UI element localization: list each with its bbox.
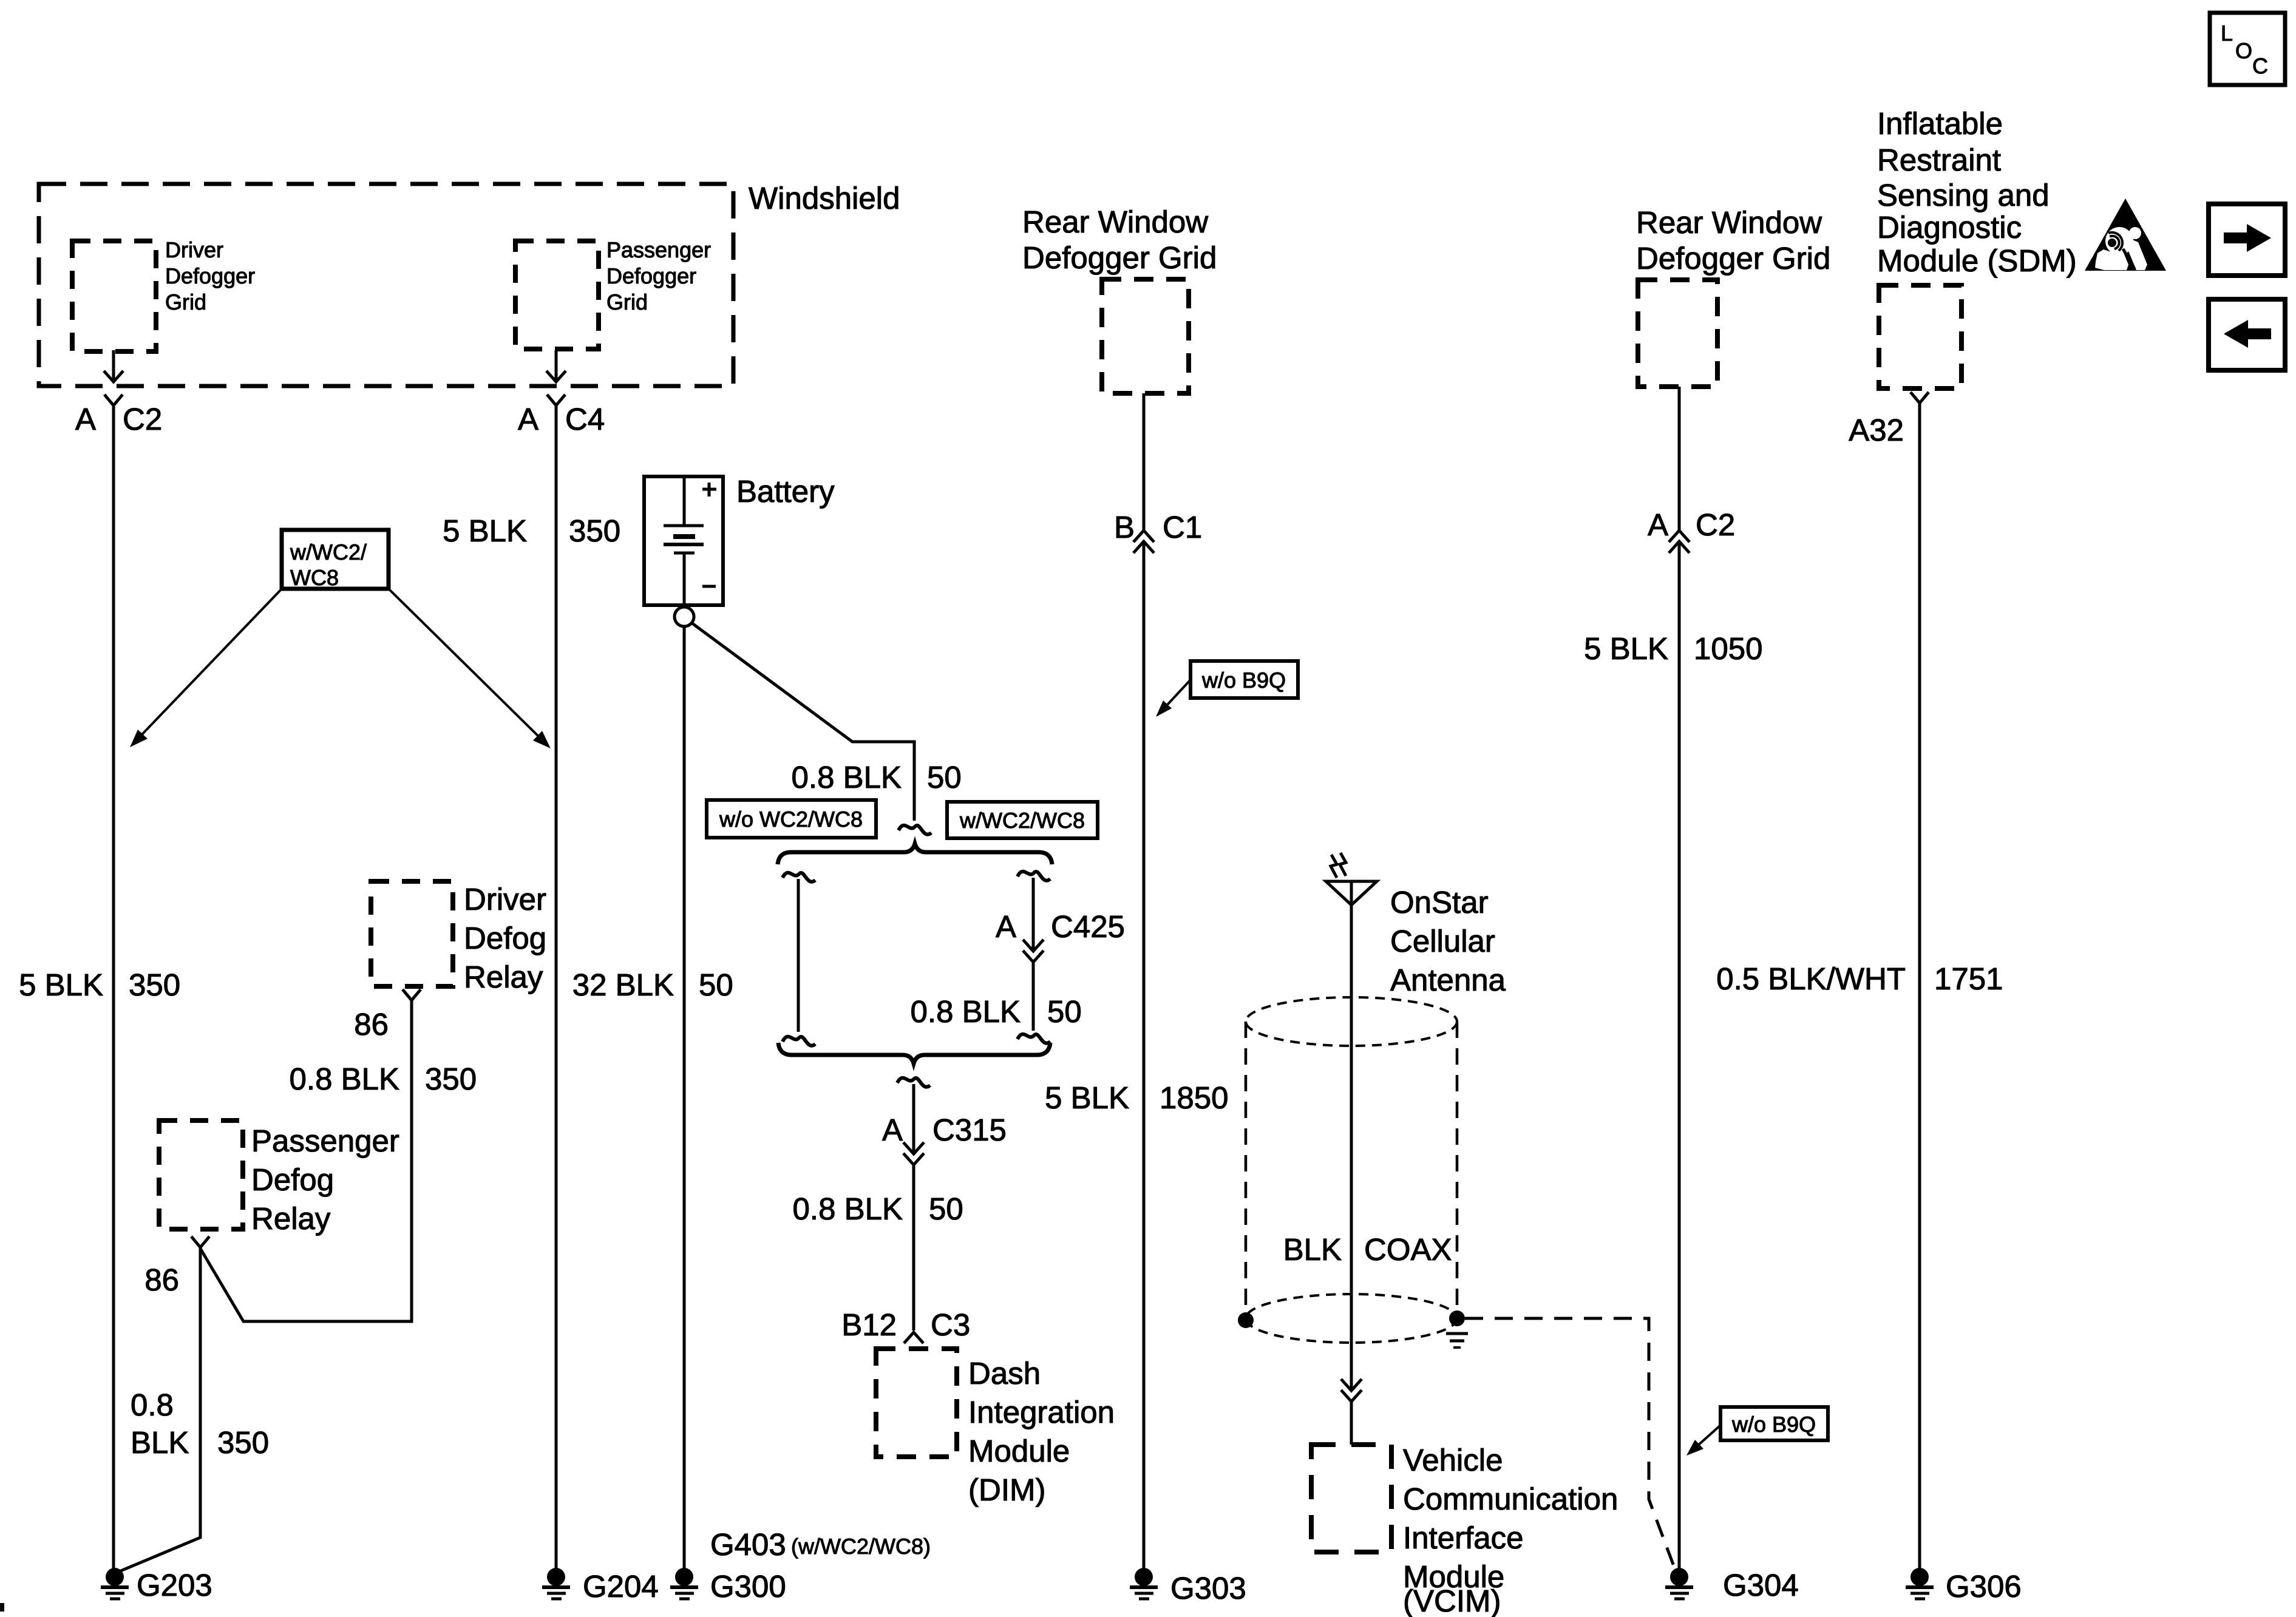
svg-text:w/WC2/: w/WC2/ — [290, 540, 367, 564]
wire: driver grid to windshield edge with arrowhead — [112, 350, 115, 381]
vehicle communication interface module box — [1311, 1445, 1391, 1552]
forward arrow box — [2209, 204, 2285, 276]
wire: antenna lead to VCIM — [1350, 1402, 1353, 1445]
svg-text:Antenna: Antenna — [1390, 963, 1506, 997]
connector fork pin 86 passenger relay — [191, 1236, 209, 1247]
svg-text:Passenger: Passenger — [251, 1124, 399, 1158]
svg-text:C2: C2 — [1696, 507, 1735, 542]
arrow from option tag to passenger wire — [387, 587, 540, 738]
svg-text:(DIM): (DIM) — [968, 1473, 1045, 1507]
dashed ground link from coax shield to G304 — [1465, 1318, 1675, 1569]
svg-text:COAX: COAX — [1364, 1232, 1452, 1267]
svg-text:A: A — [518, 402, 538, 436]
ground G303 — [1135, 1568, 1153, 1586]
ground G204 — [547, 1568, 565, 1586]
svg-text:Vehicle: Vehicle — [1403, 1443, 1503, 1477]
svg-text:BLK: BLK — [131, 1425, 189, 1460]
svg-text:WC8: WC8 — [290, 565, 339, 590]
svg-text:C315: C315 — [932, 1113, 1007, 1147]
coax shield cylinder walls — [1245, 1022, 1248, 1318]
svg-text:Diagnostic: Diagnostic — [1877, 210, 2022, 245]
ground G306 — [1911, 1568, 1929, 1586]
svg-text:Grid: Grid — [606, 290, 648, 314]
left option branch squiggle top — [783, 873, 815, 882]
arrow from option tag to left wire — [140, 587, 284, 736]
svg-text:Defog: Defog — [251, 1162, 334, 1197]
connector fork A C2 — [104, 395, 123, 405]
option tag box w/o B9Q (upper) — [1190, 661, 1298, 698]
arrow from w/o B9Q to wire — [1166, 680, 1190, 706]
svg-text:G203: G203 — [137, 1568, 212, 1602]
svg-text:5 BLK: 5 BLK — [443, 514, 527, 548]
svg-text:Defogger Grid: Defogger Grid — [1022, 240, 1217, 275]
coax shield cylinder top — [1246, 997, 1457, 1046]
wire: SDM to G306 — [1918, 403, 1921, 1572]
LOC reference box — [2210, 13, 2285, 85]
splice squiggle below lower brace — [897, 1078, 930, 1087]
battery terminal junction circle — [674, 607, 694, 626]
svg-text:w/o B9Q: w/o B9Q — [1731, 1412, 1816, 1437]
shield node dot left — [1238, 1312, 1254, 1328]
battery minus sign — [702, 585, 716, 588]
svg-text:Battery: Battery — [736, 474, 835, 509]
windshield dashed enclosure — [39, 184, 733, 386]
svg-text:A: A — [1648, 507, 1668, 542]
svg-text:Sensing and: Sensing and — [1877, 178, 2050, 212]
svg-text:OnStar: OnStar — [1390, 885, 1489, 920]
passenger defogger grid box — [515, 241, 599, 349]
wire: second ground wire to G204 — [555, 405, 558, 1572]
wire: driver relay ground path — [200, 1000, 412, 1321]
svg-text:Rear Window: Rear Window — [1022, 205, 1208, 239]
svg-text:Defogger: Defogger — [165, 263, 255, 288]
svg-text:A: A — [882, 1113, 903, 1147]
wire: battery ground wire to G300 — [683, 626, 686, 1572]
svg-text:G303: G303 — [1170, 1571, 1246, 1605]
connector fork A C4 — [547, 395, 565, 405]
svg-text:0.8 BLK: 0.8 BLK — [911, 994, 1021, 1029]
svg-text:Dash: Dash — [968, 1356, 1041, 1391]
svg-text:G204: G204 — [583, 1569, 659, 1604]
svg-text:w/o B9Q: w/o B9Q — [1201, 668, 1286, 693]
wire: left option branch — [797, 879, 800, 1032]
svg-text:0.8: 0.8 — [131, 1388, 174, 1422]
wire: right defogger grid to A C2 — [1678, 387, 1681, 531]
wire: right option branch lower — [1032, 962, 1035, 1031]
SDM box — [1879, 285, 1961, 388]
splice squiggle above brace — [898, 825, 931, 835]
svg-text:350: 350 — [217, 1425, 269, 1460]
svg-text:C1: C1 — [1163, 510, 1202, 544]
svg-text:w/WC2/WC8: w/WC2/WC8 — [959, 808, 1085, 833]
svg-text:Grid: Grid — [165, 290, 206, 314]
wire: right option branch upper — [1032, 878, 1035, 951]
wire: passenger relay to G203 — [118, 1247, 200, 1572]
SRS warning triangle icon — [2085, 198, 2166, 271]
svg-text:Defogger: Defogger — [606, 263, 696, 288]
lower option brace — [778, 1043, 1050, 1063]
inline connector on antenna lead (double chevron down) — [1341, 1379, 1362, 1391]
back arrow box — [2209, 299, 2285, 370]
ground G203 — [106, 1568, 124, 1586]
ground G304 — [1670, 1568, 1688, 1586]
svg-text:5 BLK: 5 BLK — [1045, 1080, 1129, 1115]
svg-text:Communication: Communication — [1403, 1482, 1618, 1516]
right option branch squiggle bottom — [1017, 1034, 1050, 1043]
wire: battery junction to option splice — [691, 623, 914, 821]
svg-text:Module: Module — [968, 1434, 1070, 1468]
driver defogger grid box — [72, 241, 156, 351]
svg-text:A32: A32 — [1849, 413, 1904, 447]
svg-text:G300: G300 — [710, 1569, 786, 1604]
wire: C315 to DIM — [912, 1165, 915, 1331]
dash integration module box — [876, 1349, 957, 1457]
svg-text:350: 350 — [569, 514, 620, 548]
svg-text:O: O — [2235, 38, 2252, 63]
svg-text:Restraint: Restraint — [1877, 143, 2001, 177]
svg-text:0.8 BLK: 0.8 BLK — [793, 1192, 903, 1226]
svg-text:C2: C2 — [123, 402, 162, 436]
option tag box w/o B9Q (lower) — [1720, 1407, 1828, 1440]
svg-text:C3: C3 — [931, 1307, 970, 1342]
svg-text:(VCIM): (VCIM) — [1403, 1584, 1501, 1617]
wire: defogger grid to B C1 — [1143, 393, 1146, 531]
svg-text:Driver: Driver — [464, 882, 546, 917]
svg-text:Interface: Interface — [1403, 1520, 1523, 1555]
svg-text:32 BLK: 32 BLK — [572, 968, 674, 1002]
svg-text:5 BLK: 5 BLK — [1584, 631, 1668, 666]
inline connector A C315 (double chevron down) — [903, 1142, 924, 1154]
svg-text:Defog: Defog — [464, 921, 546, 955]
svg-text:B: B — [1114, 510, 1135, 544]
svg-text:1751: 1751 — [1934, 961, 2003, 996]
shield node dot right with ground marks — [1449, 1310, 1465, 1326]
svg-text:C4: C4 — [565, 402, 605, 436]
svg-text:w/o WC2/WC8: w/o WC2/WC8 — [719, 807, 863, 832]
svg-text:Rear Window: Rear Window — [1636, 205, 1822, 240]
svg-text:L: L — [2221, 21, 2233, 46]
svg-text:350: 350 — [425, 1062, 477, 1096]
right option branch squiggle top — [1017, 872, 1050, 881]
upper option brace — [778, 844, 1052, 864]
battery plus sign — [702, 483, 716, 497]
svg-text:C: C — [2252, 53, 2268, 78]
svg-text:86: 86 — [354, 1007, 389, 1042]
svg-text:0.5 BLK/WHT: 0.5 BLK/WHT — [1716, 961, 1906, 996]
passenger defog relay box — [159, 1120, 243, 1229]
connector fork A32 — [1911, 392, 1929, 403]
inline connector A C2 (double chevron up) — [1669, 531, 1690, 542]
svg-text:Inflatable: Inflatable — [1877, 106, 2003, 141]
svg-text:(w/WC2/WC8): (w/WC2/WC8) — [791, 1534, 931, 1559]
svg-text:1050: 1050 — [1694, 631, 1762, 666]
option tag box w/WC2/WC8 — [282, 530, 389, 589]
svg-text:Cellular: Cellular — [1390, 924, 1495, 958]
svg-text:Defogger Grid: Defogger Grid — [1636, 241, 1830, 276]
svg-text:A: A — [75, 402, 96, 436]
page edge mark — [0, 1603, 4, 1612]
left option branch squiggle bottom — [783, 1037, 815, 1046]
wire: B C1 to G303 — [1143, 541, 1146, 1572]
svg-text:Relay: Relay — [464, 960, 543, 994]
svg-text:G304: G304 — [1723, 1568, 1799, 1602]
inline connector A C425 (double chevron down) — [1023, 940, 1044, 951]
antenna symbol — [1326, 881, 1377, 905]
rear window defogger grid (right) box — [1638, 280, 1717, 387]
svg-text:Relay: Relay — [251, 1201, 331, 1236]
svg-text:5 BLK: 5 BLK — [19, 968, 103, 1002]
svg-text:Windshield: Windshield — [749, 181, 900, 215]
svg-text:C425: C425 — [1051, 909, 1125, 944]
svg-text:Integration: Integration — [968, 1395, 1115, 1429]
svg-text:Module (SDM): Module (SDM) — [1877, 243, 2077, 278]
svg-text:G306: G306 — [1946, 1569, 2022, 1604]
wire: antenna coax lead — [1350, 881, 1353, 1390]
svg-text:BLK: BLK — [1283, 1232, 1342, 1267]
svg-text:0.8 BLK: 0.8 BLK — [290, 1062, 399, 1096]
option tag box w/o WC2/WC8 — [707, 800, 876, 838]
arrow from lower w/o B9Q to wire — [1697, 1425, 1720, 1446]
wire: left ground wire to G203 — [112, 405, 115, 1572]
wire: passenger grid to windshield edge with arrowhead — [555, 350, 558, 381]
svg-text:50: 50 — [699, 968, 733, 1002]
svg-text:A: A — [996, 909, 1016, 944]
inline connector B C1 (double chevron up) — [1133, 531, 1154, 542]
svg-text:G403: G403 — [710, 1527, 786, 1562]
ground G300 with G403 alternate — [675, 1568, 693, 1586]
connector fork pin 86 driver relay — [402, 989, 421, 1000]
svg-text:50: 50 — [929, 1192, 963, 1226]
svg-text:Passenger: Passenger — [606, 237, 711, 262]
wire: splice to C315 — [912, 1084, 915, 1153]
svg-text:1850: 1850 — [1160, 1080, 1228, 1115]
svg-text:86: 86 — [144, 1263, 179, 1297]
svg-text:50: 50 — [1047, 994, 1082, 1029]
rear window defogger grid (left) box — [1102, 279, 1189, 393]
option tag box w/WC2/WC8 (middle) — [947, 802, 1098, 838]
svg-text:50: 50 — [927, 760, 962, 795]
svg-text:B12: B12 — [841, 1307, 897, 1342]
coax shield cylinder bottom — [1246, 1294, 1457, 1343]
svg-text:350: 350 — [129, 968, 180, 1002]
svg-text:Driver: Driver — [165, 237, 223, 262]
connector B12 C3 (chevron up) — [904, 1332, 923, 1343]
driver defog relay box — [371, 881, 453, 986]
svg-text:0.8 BLK: 0.8 BLK — [792, 760, 902, 795]
antenna RF marks — [1331, 855, 1337, 878]
wire: A C2 to G304 — [1678, 541, 1681, 1572]
battery B1 — [644, 476, 723, 605]
